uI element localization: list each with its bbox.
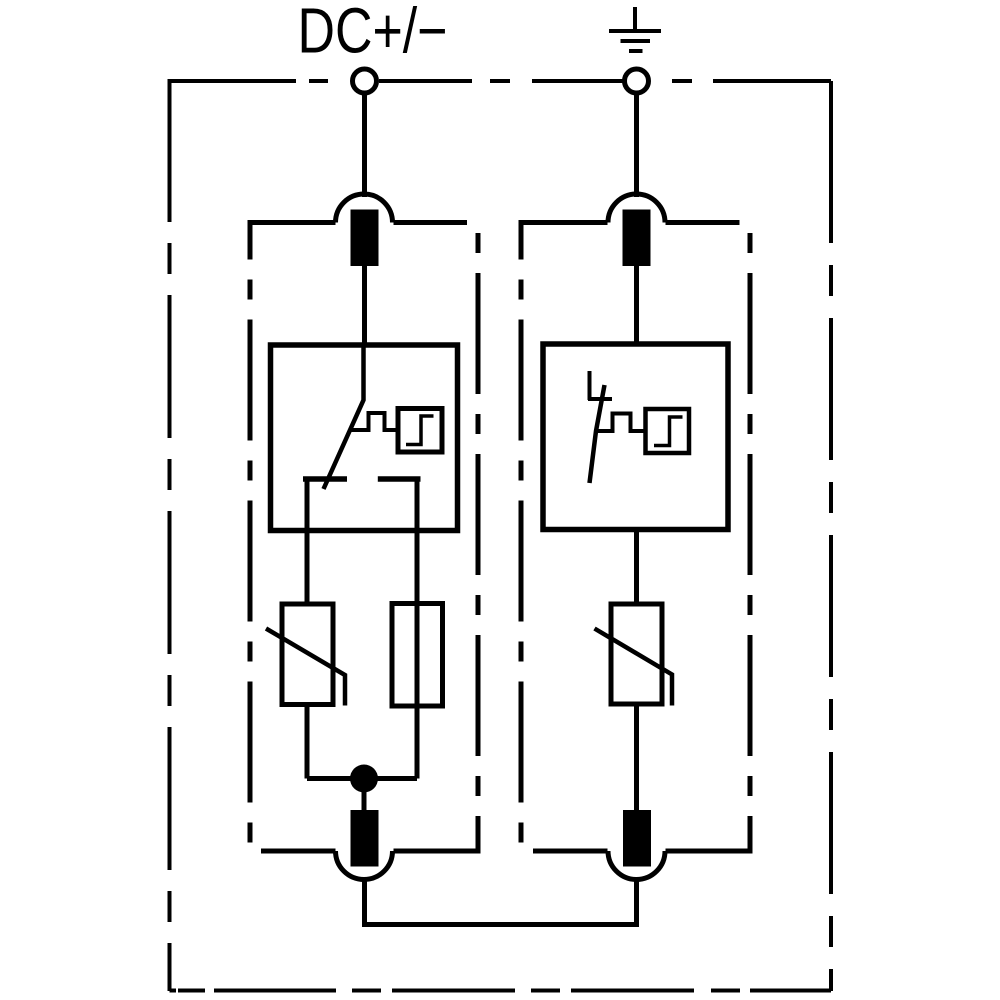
svg-text:DC+/−: DC+/− [298, 0, 448, 67]
